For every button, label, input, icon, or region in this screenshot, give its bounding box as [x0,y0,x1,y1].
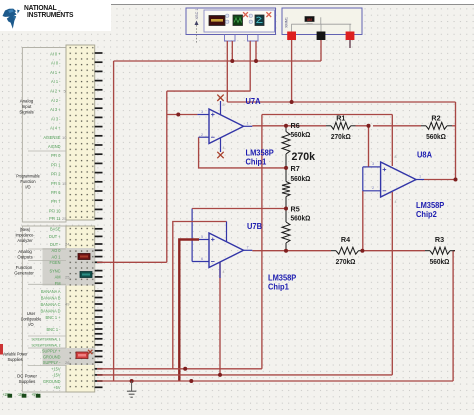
svg-text:AM: AM [55,274,61,279]
resistor R5 560k (vertical) [282,222,290,243]
resistor R7 560k (vertical) [282,182,290,197]
U7A V+ X (no connect) [217,95,223,101]
svg-text:560kΩ: 560kΩ [291,176,311,183]
wire: U7A + input tap [167,114,198,116]
wire: DMM V+ drop [291,40,293,102]
svg-text:PFI 6: PFI 6 [51,190,61,195]
wire: V+ distribution horizontal [262,114,392,116]
svg-text:U8A: U8A [417,150,432,159]
svg-text:Signals: Signals [19,109,34,114]
svg-text:15: 15 [62,181,67,186]
svg-text:BNC 1 +: BNC 1 + [45,315,61,320]
node DMM V+ on U8A output line [290,100,294,104]
svg-text:BANANA B: BANANA B [41,295,61,300]
svg-text:PFI 2: PFI 2 [51,171,61,176]
resistor R2 560k (horizontal) [421,125,426,127]
svg-text:4: 4 [223,270,225,274]
svg-text:8: 8 [395,155,397,159]
wire: U7A feedback [199,137,286,168]
svg-text:Function: Function [20,179,36,184]
DMM probe bar [291,23,351,25]
svg-text:AI 2 +: AI 2 + [50,88,61,93]
strip B pins [95,228,103,388]
wire: W1 left drop to GROUND rail [113,61,115,381]
wire: +15V rail (rail1) [97,368,262,370]
svg-text:AO 1: AO 1 [51,254,61,259]
svg-text:SUPPLY +: SUPPLY + [42,348,61,353]
node scope CH A- on ground bus [230,59,234,63]
U7A V- pin [220,138,222,152]
svg-text:BNC 1 -: BNC 1 - [46,327,61,332]
wire: R3 right drop to ground rail [452,251,454,381]
scope icon: DMM-like maroon screen [209,16,225,26]
svg-text:GROUND: GROUND [43,379,61,384]
svg-text:R2: R2 [431,113,440,122]
wire: scope CH B+ drop [249,41,251,91]
jumper component (maroon) on AO rows [78,254,90,260]
svg-text:560kΩ: 560kΩ [291,215,311,222]
svg-text:2: 2 [372,186,374,190]
scope pin-pair symbol 1 [226,14,229,17]
svg-text:49: 49 [65,302,70,307]
wire: rail1 riser to V+ distribution [261,115,263,369]
node U7A + input [176,113,180,117]
scope icon: green screen [233,15,243,26]
svg-text:™: ™ [58,10,62,14]
svg-text:270k: 270k [292,151,316,163]
DMM probe red 2 [346,32,355,41]
svg-text:Analog: Analog [20,98,34,103]
svg-text:BANANA A: BANANA A [41,289,61,294]
svg-text:AISENSE: AISENSE [43,135,60,140]
svg-text:FM: FM [55,281,61,286]
svg-text:Variable Power: Variable Power [3,351,29,356]
svg-text:560kΩ: 560kΩ [426,134,446,141]
U7A - marker [211,136,215,138]
label box separators [28,150,66,152]
U7B V- pin [219,262,221,278]
svg-text:AI 0 -: AI 0 - [51,60,61,65]
U8A input leads [369,166,381,168]
svg-text:SCREWTERMINAL 1: SCREWTERMINAL 1 [31,337,60,341]
svg-text:Outputs: Outputs [17,254,33,259]
svg-text:Supplies: Supplies [19,379,36,384]
svg-text:Impedance-: Impedance- [15,232,35,237]
svg-text:XMM1: XMM1 [285,17,289,28]
svg-text:26: 26 [65,360,70,365]
svg-text:Supplies: Supplies [8,357,23,362]
svg-text:5: 5 [201,235,203,239]
svg-text:LM358P: LM358P [268,273,296,282]
svg-text:U7B: U7B [247,222,262,231]
svg-text:AIGND: AIGND [48,144,61,149]
svg-text:AI 2 -: AI 2 - [51,98,61,103]
svg-text:R3: R3 [435,235,444,244]
svg-text:R5: R5 [291,204,300,213]
node R6 top / U7A output [284,124,288,128]
resistor R3 560k (horizontal) [425,250,430,252]
svg-text:SYNC: SYNC [50,268,61,273]
oscilloscope instrument box XSC1 [186,8,276,35]
wire: U7B output row [252,250,331,252]
svg-text:PFI 5: PFI 5 [51,181,61,186]
scope bottom pin brackets [225,35,236,42]
svg-text:AI 3 +: AI 3 + [50,107,61,112]
svg-text:3: 3 [372,162,374,166]
svg-text:Chip1: Chip1 [268,282,290,291]
svg-text:270kΩ: 270kΩ [336,259,356,266]
wire: U7B feedback top [192,208,286,210]
svg-text:I/O: I/O [28,322,34,327]
svg-text:Function: Function [16,265,33,270]
node U7B V- on -15V rail [218,373,222,377]
wire: U8A - input column [362,191,364,251]
svg-text:SUPPLY -: SUPPLY - [43,360,61,365]
wire: resistor chain column R6-R7-R5 [285,126,287,132]
DMM display [305,16,315,21]
U8A - marker [383,190,387,192]
scope icon: teal screen [255,15,264,26]
resistor R1 270k (horizontal) [326,125,331,127]
U7A + marker [211,114,215,116]
wire: scope CH A- drop [231,41,233,61]
resistor R4 270k (horizontal) [331,250,336,252]
node U8A output / R2 [454,178,458,182]
svg-text:Programmable: Programmable [16,173,40,178]
ground [131,381,133,391]
node R4-R3 / U8A - input [360,249,364,253]
U7B - marker [211,261,215,263]
svg-text:Chip2: Chip2 [416,210,437,219]
U7A output lead [244,125,253,127]
svg-text:AI 3 -: AI 3 - [51,116,61,121]
svg-text:BANANA D: BANANA D [41,308,61,313]
svg-text:Analyzer: Analyzer [17,238,33,243]
svg-text:PFI 1: PFI 1 [51,162,61,167]
svg-text:BANANA C: BANANA C [41,302,61,307]
wire: U8A output column [455,102,457,180]
wire: U8A input bracket [362,167,364,191]
connector label box (bottom) [22,226,66,392]
op-amp U7B [209,233,244,268]
svg-text:Generator: Generator [14,270,34,275]
svg-text:Chip1: Chip1 [246,157,268,166]
wire: scope/DMM ground bus W1 [114,60,321,62]
scope pin-pair symbol 2 [249,14,252,17]
svg-text:-15V: -15V [52,372,61,377]
node R5 bottom / U7B output [284,249,288,253]
svg-text:10: 10 [62,135,67,140]
svg-text:1: 1 [247,122,249,126]
svg-text:Configurable: Configurable [21,316,42,321]
svg-text:PFI 0: PFI 0 [51,153,61,158]
svg-text:+15V: +15V [51,366,61,371]
svg-text:4: 4 [395,200,397,204]
DMM probe red (V) [287,32,296,41]
scope arrow [195,21,199,26]
breadboard holes strip B [68,228,94,391]
breadboard holes strip A [68,47,94,219]
red X on green screen [243,12,248,17]
wire: DMM COM drop [320,40,322,61]
node on +15V rail [183,367,187,371]
U7A input leads [197,114,209,116]
DMM probe black (COM) [317,32,326,41]
U7B output lead [244,249,253,251]
node R7-R5 / U7B feedback [284,207,288,211]
svg-text:XSC 1: XSC 1 [195,9,199,20]
svg-text:25: 25 [62,216,67,221]
svg-text:INSTRUMENTS: INSTRUMENTS [27,11,74,19]
U7A V+ pin [220,101,222,115]
svg-text:AI 4 +: AI 4 + [50,125,61,130]
node on ground rail [189,379,193,383]
svg-text:Analog: Analog [18,249,32,254]
strip A pins [95,52,103,219]
svg-text:DC Power: DC Power [17,373,37,378]
svg-text:U7A: U7A [246,97,261,106]
svg-text:24: 24 [65,242,70,247]
svg-text:LM358P: LM358P [246,148,274,157]
svg-text:3: 3 [201,110,203,114]
breadboard strip A (top) [66,45,95,220]
wire: R6/R1 node segments [286,125,326,127]
svg-text:PFI 11: PFI 11 [49,216,61,221]
svg-text:4: 4 [223,146,225,150]
svg-text:AI 1 -: AI 1 - [51,79,61,84]
NI eagle icon [3,9,20,29]
svg-text:PFI 7: PFI 7 [51,199,61,204]
wire: FGEN pin to vertical [97,261,167,263]
resistor R6 560k (vertical) [282,132,290,155]
window top edge [0,0,474,4]
strip B signal labels [31,226,61,390]
U7B input leads [199,239,209,241]
strip A signal labels [43,51,61,221]
svg-text:6: 6 [201,257,203,261]
wire: -15V rail (rail2) [97,374,392,376]
wire: U7A output lead to R6 top [252,125,286,127]
svg-text:2: 2 [201,133,203,137]
svg-text:AI 1 +: AI 1 + [50,70,61,75]
svg-text:DUT +: DUT + [49,234,61,239]
wire: scope CH B- drop [255,41,257,61]
wire: U7B V+ supply [173,222,227,369]
wire: U8A V- pin drop [391,192,393,375]
component (red) on variable supply rows [76,352,88,359]
wire: U8A + input column [368,126,370,167]
svg-text:I/O: I/O [25,184,31,189]
wire: FGEN signal vertical [166,91,168,262]
wire: U7B + input to ground (thick) [179,240,199,382]
connector label box (top, Analog Input / PFI) [22,48,66,223]
svg-text:PFI 10: PFI 10 [49,208,61,213]
jumper component (teal) on FGEN/AM rows [80,272,92,278]
wire: U7B V- supply drop [219,262,221,375]
DMM instrument box XMM1 [282,8,362,35]
svg-text:FGEN: FGEN [50,260,61,265]
svg-text:8: 8 [223,103,225,107]
svg-text:25: 25 [65,275,70,280]
svg-text:DUT -: DUT - [50,242,61,247]
node scope CH B- on ground bus [254,59,258,63]
wire: CH B to signal line [167,90,250,92]
svg-text:+5V: +5V [53,385,60,390]
svg-text:888: 888 [307,18,312,22]
U7B V+ pin [226,222,228,243]
NI logo white box [0,0,111,31]
svg-text:7: 7 [247,246,249,250]
breadboard strip B (bottom) [66,226,95,392]
red X on teal screen [266,12,271,17]
svg-text:AI 0 +: AI 0 + [50,51,61,56]
svg-text:R1: R1 [336,113,345,122]
gray highlight band 1 on strip B [43,248,95,286]
svg-text:R4: R4 [341,235,351,244]
svg-text:LM358P: LM358P [416,201,444,210]
svg-text:1: 1 [419,175,421,179]
op-amp U8A [381,162,416,197]
svg-text:R7: R7 [291,164,300,173]
node R1-R2 / U8A + input [367,124,371,128]
node ground rail / ground symbol [130,379,134,383]
svg-text:560kΩ: 560kΩ [291,132,311,139]
svg-text:SCREWTERMINAL 2: SCREWTERMINAL 2 [31,343,60,347]
U8A + marker [383,169,387,171]
svg-text:R6: R6 [291,121,300,130]
svg-text:GROUND: GROUND [43,354,61,359]
wire: U7A output / CH A line [227,101,455,103]
U8A output lead [416,179,424,181]
wire: GROUND rail (rail3) [97,380,453,382]
wire: scope CH A+ drop to U7A output line [226,41,228,102]
svg-text:560kΩ: 560kΩ [430,259,450,266]
wire: U7B feedback column [191,209,193,262]
svg-text:270kΩ: 270kΩ [331,134,351,141]
node R6-R7 / U7A feedback [284,166,288,170]
svg-text:BASE: BASE [50,226,61,231]
U7B + marker [211,239,215,241]
wire: U7B - input lead bottom [192,261,209,263]
U7A V- X (no connect) [217,152,223,158]
svg-text:Input: Input [22,104,32,109]
gray highlight band 2 on strip B [43,348,95,365]
op-amp U7A [209,109,244,144]
wire: U8A output lead [424,179,456,181]
red block at left edge [0,344,3,355]
svg-text:AO 0: AO 0 [51,248,61,253]
wire: U8A V+ pin drop [391,115,393,167]
